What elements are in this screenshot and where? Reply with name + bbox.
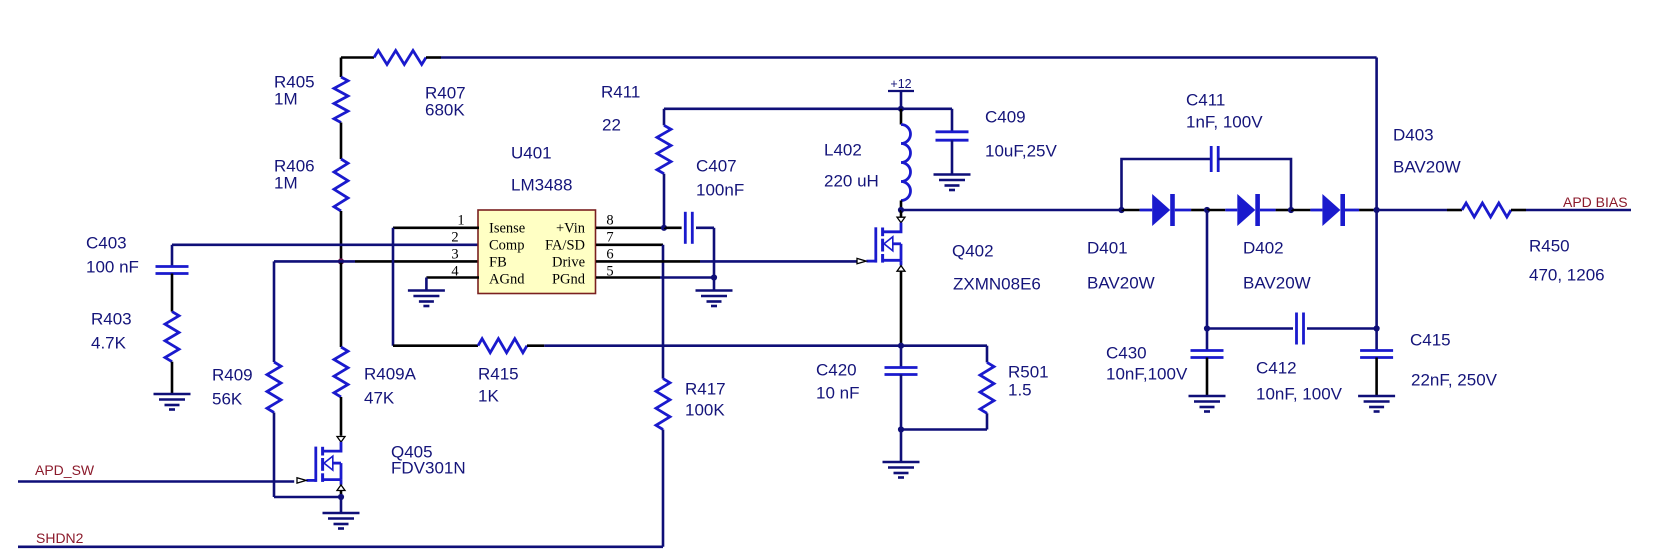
wire sense node to R501 [901,344,987,347]
transistor Q405 gate arrow [297,478,306,483]
svg-text:1M: 1M [274,173,298,192]
capacitor C409 [936,130,969,133]
node C420/R501 ground junction [898,426,904,432]
svg-text:+12: +12 [890,77,911,91]
node +12 junction [898,106,904,112]
svg-text:1.5: 1.5 [1008,380,1032,399]
svg-text:47K: 47K [364,388,395,407]
wire R405 top lead [340,58,343,78]
node D401 anode junction [1118,207,1124,213]
wire output node down to C415 [1375,210,1378,329]
capacitor C411 [1210,146,1213,172]
wire R415 left lead [393,344,478,347]
svg-text:D403: D403 [1393,125,1434,144]
transistor Q402 gate lead [866,260,875,263]
svg-text:PGnd: PGnd [552,272,586,288]
ground below C415 [1358,395,1395,398]
svg-text:APD_SW: APD_SW [35,462,95,478]
ground below C420 [883,461,920,464]
svg-text:APD BIAS: APD BIAS [1563,194,1628,210]
svg-text:C430: C430 [1106,343,1147,362]
svg-text:FB: FB [489,255,507,271]
svg-text:LM3488: LM3488 [511,175,572,194]
svg-text:L402: L402 [824,140,862,159]
svg-text:U401: U401 [511,143,552,162]
svg-text:ZXMN08E6: ZXMN08E6 [953,274,1041,293]
node FB junction [338,258,344,264]
svg-text:FA/SD: FA/SD [545,238,585,254]
svg-text:R417: R417 [685,379,726,398]
wire pin8 +Vin [596,227,664,230]
wire pin7 FA/SD [596,244,663,247]
wire C412 to C415 node [1307,327,1377,330]
power +12 symbol [888,90,914,92]
svg-text:R411: R411 [601,82,640,101]
svg-text:100 nF: 100 nF [86,257,139,276]
svg-text:4.7K: 4.7K [91,333,127,352]
node output junction [1374,207,1380,213]
node D402/C411 junction [1288,207,1294,213]
wire C409 to ground [951,140,954,174]
wire pin4 AGnd to ground [426,276,479,279]
svg-text:10 nF: 10 nF [816,383,859,402]
transistor Q402 drain arrow [897,217,905,223]
diode D402 [1225,209,1237,212]
resistor R409 [267,362,281,413]
op-amp U401 LM3488 body [478,210,596,294]
ground below C409 [934,173,971,176]
svg-text:C407: C407 [696,156,737,175]
wire top feedback rail right of R407 [426,56,441,59]
transistor Q405 gate lead [306,479,315,482]
resistor R501 [980,362,994,413]
svg-text:C403: C403 [86,233,127,252]
svg-text:Q402: Q402 [952,241,994,260]
capacitor C430 [1191,349,1224,352]
node D401/D402 junction [1204,207,1210,213]
svg-text:100K: 100K [685,400,725,419]
svg-text:R403: R403 [91,309,132,328]
resistor R415 [478,339,527,353]
ground below Q405 [323,512,360,515]
svg-text:BAV20W: BAV20W [1087,273,1155,292]
wire C430 node to C412 [1207,327,1293,330]
svg-text:C411: C411 [1186,90,1225,109]
svg-text:1nF, 100V: 1nF, 100V [1186,112,1263,131]
resistor R403 [165,312,179,362]
net SHDN2 wire [18,545,663,548]
svg-text:3: 3 [451,247,458,263]
svg-text:C415: C415 [1410,330,1451,349]
wire output node to R450 [1377,209,1447,212]
svg-text:C409: C409 [985,107,1026,126]
wire C407 right to ground corner [696,227,714,230]
wire R406 bottom to FB node [340,211,343,261]
svg-text:2: 2 [451,230,458,246]
capacitor C412 [1295,313,1298,345]
svg-text:8: 8 [606,213,613,229]
transistor Q402 body [883,223,901,232]
wire sense line to C420 node [544,344,901,347]
resistor R411 [657,125,671,173]
capacitor C403 [156,265,189,268]
wire FB node down to R409A [340,261,343,347]
capacitor C420 bottom lead [900,375,903,430]
ground below PGnd [696,289,733,292]
svg-text:BAV20W: BAV20W [1393,157,1461,176]
inductor L402 top lead [900,109,903,125]
wire C403 to R403 [171,274,174,312]
wire junction to ground [900,430,903,463]
node C430/C412 junction [1204,325,1210,331]
capacitor C430 top lead [1206,329,1209,351]
svg-text:220 uH: 220 uH [824,171,879,190]
capacitor C411 bracket [1122,159,1212,210]
wire FB node to R409 top [355,260,479,263]
wire +Vin junction to C407 [664,227,682,230]
wire switch node to D401 [901,209,1122,212]
svg-text:AGnd: AGnd [489,272,525,288]
svg-text:10uF,25V: 10uF,25V [985,141,1057,160]
wire R450 right lead [1511,209,1526,212]
svg-text:D402: D402 [1243,238,1284,257]
resistor R405 [334,77,348,123]
wire top feedback rail (R407 left lead) [341,56,374,59]
net APD BIAS wire [1526,209,1631,212]
capacitor C415 top lead [1375,329,1378,351]
wire pin5 PGnd [596,276,660,279]
transistor Q405 drain arrow [337,437,345,443]
node Q405 source junction [338,494,344,500]
svg-text:680K: 680K [425,100,465,119]
resistor R411 top lead [663,109,666,126]
svg-text:C412: C412 [1256,358,1297,377]
wire R417 bottom to SHDN2 line [662,430,665,547]
svg-text:7: 7 [606,230,613,246]
diode D401 [1140,209,1153,212]
svg-text:1M: 1M [274,89,298,108]
node sense junction [898,343,904,349]
ground below R403 [154,393,191,396]
transistor Q405 body [323,442,341,451]
wire +12 supply rail [664,108,952,111]
svg-text:10nF,100V: 10nF,100V [1106,364,1188,383]
svg-text:R415: R415 [478,364,519,383]
capacitor C415 bottom lead [1375,358,1378,397]
node +Vin junction [661,225,667,231]
transistor Q402 source arrow [897,266,905,272]
svg-text:470, 1206: 470, 1206 [1529,265,1605,284]
capacitor C411 bracket right [1218,159,1291,210]
svg-text:22nF, 250V: 22nF, 250V [1411,370,1498,389]
svg-text:100nF: 100nF [696,180,744,199]
wire R415 right lead [527,344,544,347]
svg-text:1: 1 [457,213,464,229]
wire R409 bottom to source rail [273,413,276,498]
capacitor C407 [684,212,687,244]
resistor R409A [334,347,348,397]
resistor R406 [334,159,348,211]
wire R501 bottom [986,413,989,429]
wire R403 to ground [171,362,174,394]
wire D402 cathode to C411 node [1276,209,1291,212]
node C415 junction [1374,325,1380,331]
wire pin6 Drive to Q402 gate [596,260,700,263]
inductor L402 [901,125,911,201]
wire D403 cathode to output node [1359,209,1374,212]
svg-text:R450: R450 [1529,236,1570,255]
ground below C430 [1189,395,1226,398]
transistor Q402 gate arrow [857,258,866,263]
svg-text:FDV301N: FDV301N [391,458,466,477]
resistor R450 [1462,203,1511,217]
wire D401/D402 node down [1206,210,1209,329]
svg-text:SHDN2: SHDN2 [36,530,84,546]
wire pin1 Isense [393,227,479,230]
svg-text:D401: D401 [1087,238,1128,257]
diode D403 [1310,209,1322,212]
node switch node junction (L402 / Q402 / D401) [898,207,904,213]
wire +12 rail to C409 [951,109,954,132]
svg-text:R501: R501 [1008,362,1049,381]
svg-text:Isense: Isense [489,221,525,237]
svg-text:22: 22 [602,115,621,134]
wire between R405 and R406 [340,123,343,160]
svg-text:R409: R409 [212,365,253,384]
svg-text:56K: 56K [212,389,243,408]
wire feedback right vertical to output node [1375,58,1378,211]
wire PGnd junction to ground [713,278,716,291]
wire Q402 source to sense node [900,271,903,346]
ground below AGnd [408,289,445,292]
capacitor C420 [885,366,918,369]
node PGnd junction [711,274,717,280]
wire FA/SD down to R417 [662,245,665,379]
net APD_SW wire [18,480,294,483]
wire R409A bottom to Q405 drain [340,397,343,436]
wire R411 bottom lead [663,174,666,228]
wire source junction to ground [340,497,343,513]
svg-text:Comp: Comp [489,238,524,254]
transistor Q405 source arrow [337,485,345,491]
svg-text:C420: C420 [816,360,857,379]
svg-text:+Vin: +Vin [556,221,586,237]
wire Q405 source to ground rail [340,491,343,497]
capacitor C420 top lead [900,346,903,368]
wire Q402 drain [900,210,903,217]
inductor L402 bottom lead [900,201,903,211]
svg-text:R409A: R409A [364,364,417,383]
wire Comp pin2 to C403 [172,244,479,247]
resistor R407 [374,51,426,65]
svg-text:BAV20W: BAV20W [1243,273,1311,292]
resistor R417 [656,379,670,430]
svg-text:10nF, 100V: 10nF, 100V [1256,384,1343,403]
capacitor C430 bottom lead [1206,358,1209,397]
svg-text:Drive: Drive [552,255,585,271]
capacitor C415 [1360,349,1393,352]
svg-text:1K: 1K [478,386,499,405]
wire D401 cathode to D402 anode [1191,209,1207,212]
